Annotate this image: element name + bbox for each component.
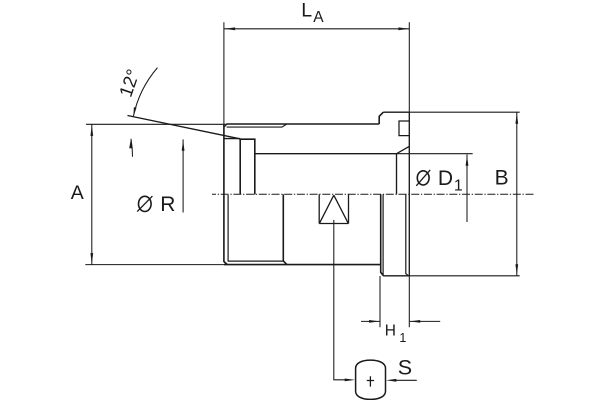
hex wrench-size symbol	[356, 360, 386, 399]
dimension L_A extension lines	[224, 22, 409, 124]
leader from check valve to hex symbol	[334, 220, 346, 380]
svg-text:S: S	[398, 355, 412, 379]
dimension H1 extension lines	[380, 276, 409, 327]
node top-left corner chamfer tick	[224, 124, 227, 127]
dimension OD1 extension line	[397, 153, 473, 155]
node body-top-edge	[226, 123, 379, 125]
check valve symbol box	[319, 194, 348, 223]
node body bottom edge	[224, 264, 381, 266]
svg-text:H: H	[385, 323, 396, 340]
node right end face vertical	[408, 112, 410, 276]
node collar (tube sleeve)	[240, 139, 255, 194]
node stub bottom silhouette	[383, 275, 409, 277]
node hex chamfer band	[227, 124, 287, 127]
svg-text:A: A	[313, 9, 324, 26]
node seal groove in end face	[399, 121, 409, 136]
svg-text:R: R	[160, 193, 175, 216]
svg-text:B: B	[495, 166, 509, 189]
leader for S label	[396, 379, 417, 381]
label O R	[139, 196, 152, 211]
node step-down shoulder	[381, 194, 384, 275]
wire: horizontal centerline (dash-dot axis)	[212, 193, 535, 195]
check valve triangle	[319, 195, 348, 223]
node stub top face silhouette	[383, 111, 409, 113]
dimension H1 lines with outside arrows	[361, 320, 440, 322]
dimension A line	[91, 124, 93, 264]
node 12 deg taper line	[128, 116, 241, 139]
node thread right edge	[283, 194, 287, 264]
plus mark inside hex	[367, 376, 374, 386]
dimension A extension lines	[85, 124, 226, 264]
node step-up shoulder with chamfer	[379, 112, 383, 124]
node thread left face	[224, 124, 227, 265]
dimension B extension lines	[409, 112, 519, 276]
label O D1	[417, 171, 429, 185]
node bore vertical	[396, 154, 398, 195]
node step chamfer line	[382, 194, 384, 275]
node face edge chamfer (outside view)	[406, 194, 409, 275]
svg-text:L: L	[301, 0, 312, 21]
node thread minor diameter line	[228, 260, 284, 262]
svg-text:D: D	[438, 167, 453, 190]
node tube surface line (O R)	[224, 138, 240, 140]
dimension L_A line	[224, 28, 409, 30]
svg-text:1: 1	[399, 331, 406, 345]
node bore chamfer diagonal	[397, 146, 410, 153]
dimension OD1 line	[466, 154, 468, 222]
dimension OR line	[182, 139, 184, 212]
node bore line	[255, 153, 397, 155]
node thread chamfer vertical	[227, 195, 229, 261]
svg-text:A: A	[71, 182, 84, 204]
svg-text:1: 1	[454, 177, 463, 194]
dimension B line	[516, 112, 518, 276]
angle dimension arcs (12 deg)	[133, 68, 157, 117]
